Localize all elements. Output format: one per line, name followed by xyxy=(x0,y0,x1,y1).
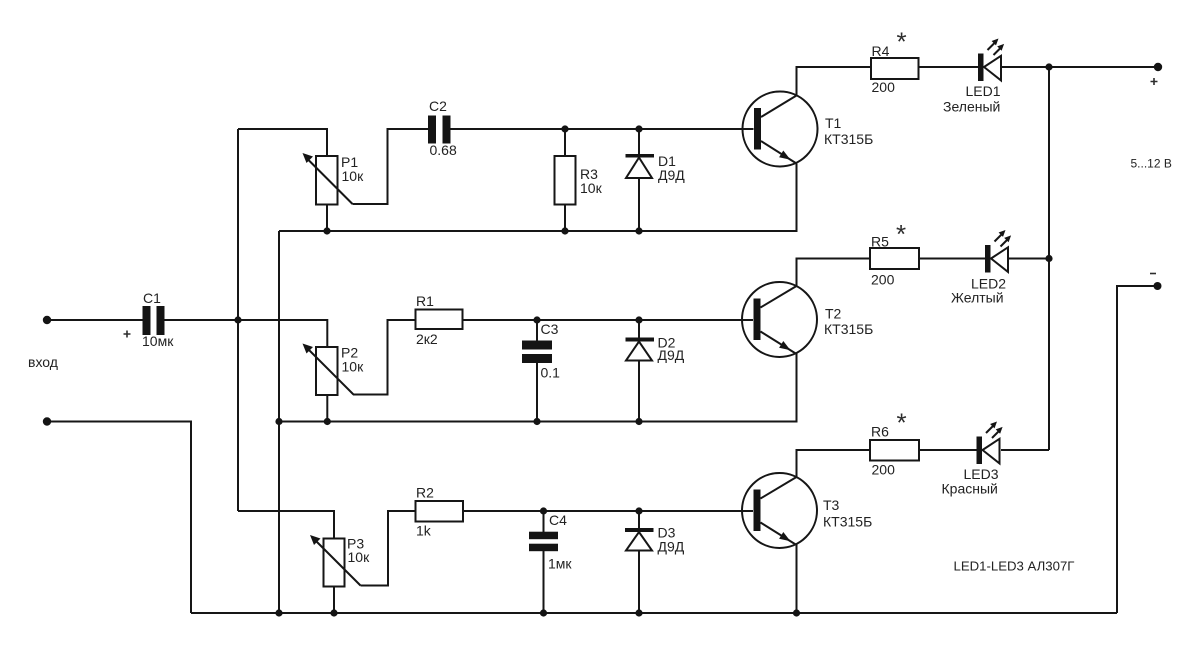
svg-text:C3: C3 xyxy=(541,321,559,337)
wire P3 wiper to R2 xyxy=(361,511,416,586)
wire bottom rail xyxy=(191,612,1117,614)
wire D1 top lead xyxy=(638,129,640,155)
node D1 top xyxy=(635,125,642,132)
resistor R3 xyxy=(555,156,603,205)
node R3 top xyxy=(561,125,568,132)
svg-text:*: * xyxy=(897,27,907,57)
wire LED1 to plus terminal xyxy=(1001,66,1158,68)
svg-text:1k: 1k xyxy=(416,523,432,539)
wire P3 bottom lead xyxy=(333,587,335,614)
wire LED3 to plus rail corner xyxy=(1001,449,1049,451)
node ground riser / bottom rail xyxy=(275,609,282,616)
node signal riser / C1 wire xyxy=(234,316,241,323)
node D2 bottom xyxy=(635,418,642,425)
svg-text:Д9Д: Д9Д xyxy=(658,347,685,363)
svg-text:Д9Д: Д9Д xyxy=(658,539,685,555)
wire LED2 to plus rail xyxy=(1008,258,1050,260)
wire T2 emitter to channel-2 bottom rail xyxy=(279,354,797,422)
node P2 bottom xyxy=(324,418,331,425)
resistor R1 xyxy=(416,293,463,347)
resistor R4 xyxy=(871,27,919,96)
svg-text:Зеленый: Зеленый xyxy=(943,99,1000,115)
wire channel-3 signal elbow to P3 top xyxy=(238,511,334,539)
node C4 top xyxy=(540,507,547,514)
wire T1 collector to R4 xyxy=(797,67,872,96)
terminal input bottom xyxy=(43,417,51,425)
svg-text:вход: вход xyxy=(28,354,58,370)
LED LED1 xyxy=(943,39,1004,115)
diode D2 xyxy=(626,335,685,363)
wire R2 to T3 base xyxy=(463,510,753,512)
potentiometer P2 xyxy=(303,344,365,396)
svg-text:Желтый: Желтый xyxy=(951,290,1004,306)
wire R1 to T2 base xyxy=(463,319,754,321)
svg-text:10к: 10к xyxy=(348,549,371,565)
svg-text:T3: T3 xyxy=(823,497,840,513)
svg-text:T2: T2 xyxy=(825,306,842,322)
wire D1 bottom lead xyxy=(638,178,640,231)
svg-text:1мк: 1мк xyxy=(548,556,572,572)
svg-text:10мк: 10мк xyxy=(142,333,174,349)
wire input top lead xyxy=(47,319,143,321)
wire T1 emitter to channel-1 bottom rail xyxy=(279,164,797,232)
wire C3 top lead xyxy=(536,320,538,341)
transistor T3 xyxy=(742,473,872,548)
node P3 bottom xyxy=(330,609,337,616)
wire T2 collector to R5 xyxy=(797,259,871,287)
svg-text:10к: 10к xyxy=(580,180,603,196)
LED LED3 xyxy=(942,422,1003,497)
wire C4 bottom lead xyxy=(543,551,545,613)
wire C4 top lead xyxy=(543,511,545,532)
terminal input top xyxy=(43,316,51,324)
node C3 bottom xyxy=(533,418,540,425)
svg-text:LED1: LED1 xyxy=(966,83,1001,99)
svg-text:200: 200 xyxy=(871,272,895,288)
node C3 top xyxy=(533,316,540,323)
node D3 top xyxy=(635,507,642,514)
svg-text:C4: C4 xyxy=(549,512,567,528)
wire D2 top lead xyxy=(638,320,640,338)
svg-text:R4: R4 xyxy=(872,43,890,59)
transistor T1 xyxy=(743,92,874,167)
wire D3 top lead xyxy=(638,511,640,528)
svg-text:R1: R1 xyxy=(416,293,434,309)
resistor R2 xyxy=(416,485,464,539)
node ground riser / channel-2 bottom xyxy=(275,418,282,425)
svg-text:2к2: 2к2 xyxy=(416,331,438,347)
svg-text:200: 200 xyxy=(872,79,896,95)
svg-text:КТ315Б: КТ315Б xyxy=(824,321,873,337)
svg-text:R2: R2 xyxy=(416,485,434,501)
svg-text:КТ315Б: КТ315Б xyxy=(823,514,872,530)
capacitor C1 xyxy=(124,290,175,349)
capacitor C4 xyxy=(529,512,572,572)
wire P1 wiper to C2 xyxy=(353,129,429,204)
wire R3 bottom lead xyxy=(564,205,566,232)
wire C2 to T1 base xyxy=(451,128,754,130)
svg-text:Красный: Красный xyxy=(942,481,998,497)
svg-text:*: * xyxy=(896,219,906,249)
node P1 bottom xyxy=(323,227,330,234)
node LED1 / plus rail xyxy=(1045,63,1052,70)
diode D1 xyxy=(626,153,686,183)
diode D3 xyxy=(625,524,685,554)
wire to P1 top xyxy=(238,129,327,156)
wire D2 bottom lead xyxy=(638,361,640,422)
wire signal bus C1 to P2 top xyxy=(165,320,328,347)
transistor T2 xyxy=(742,282,873,357)
svg-text:10к: 10к xyxy=(342,359,365,375)
svg-text:Д9Д: Д9Д xyxy=(658,167,685,183)
svg-text:*: * xyxy=(897,408,907,438)
label plus terminal xyxy=(1151,78,1158,85)
wire C3 bottom lead xyxy=(536,363,538,422)
svg-text:0.68: 0.68 xyxy=(430,142,457,158)
svg-text:200: 200 xyxy=(872,462,896,478)
node C4 bottom xyxy=(540,609,547,616)
terminal minus output xyxy=(1154,282,1162,290)
capacitor C2 xyxy=(428,98,457,158)
svg-text:КТ315Б: КТ315Б xyxy=(824,131,873,147)
svg-text:R6: R6 xyxy=(871,424,889,440)
wire R4 to LED1 xyxy=(919,66,979,68)
node D2 top xyxy=(635,316,642,323)
svg-text:5...12 В: 5...12 В xyxy=(1131,157,1172,171)
node D3 bottom xyxy=(635,609,642,616)
wire signal riser x=238 xyxy=(237,129,239,511)
wire P2 bottom lead xyxy=(326,395,328,422)
wire ground riser x=279 xyxy=(278,231,280,613)
resistor R5 xyxy=(870,219,919,288)
wire input bottom to bottom rail xyxy=(47,422,191,614)
potentiometer P1 xyxy=(303,153,365,205)
terminal plus output xyxy=(1154,63,1162,71)
wire P2 wiper to R1 xyxy=(353,320,416,395)
wire D3 bottom lead xyxy=(638,551,640,614)
wire plus rail down to LED3 xyxy=(1048,67,1050,450)
wire T3 emitter lead xyxy=(796,545,798,614)
svg-text:C1: C1 xyxy=(143,290,161,306)
svg-text:T1: T1 xyxy=(825,115,842,131)
node T3 emitter / bottom rail xyxy=(793,609,800,616)
wire minus terminal down to bottom rail xyxy=(1117,286,1157,613)
label minus terminal xyxy=(1150,273,1156,275)
wire T3 collector to R6 xyxy=(797,450,871,477)
resistor R6 xyxy=(870,408,919,478)
wire R6 to LED3 xyxy=(919,449,977,451)
potentiometer P3 xyxy=(310,535,370,587)
svg-text:R5: R5 xyxy=(871,234,889,250)
wire R5 to LED2 xyxy=(919,258,985,260)
wire P1 bottom lead xyxy=(326,205,328,232)
svg-text:LED1-LED3 АЛ307Г: LED1-LED3 АЛ307Г xyxy=(954,559,1075,574)
svg-text:10к: 10к xyxy=(342,168,365,184)
wire R3 top lead xyxy=(564,129,566,156)
svg-text:C2: C2 xyxy=(429,98,447,114)
node D1 bottom xyxy=(635,227,642,234)
node LED2 / plus rail xyxy=(1045,255,1052,262)
node R3 bottom xyxy=(561,227,568,234)
LED LED2 xyxy=(951,230,1011,306)
capacitor C3 xyxy=(522,321,560,381)
svg-text:0.1: 0.1 xyxy=(541,365,561,381)
